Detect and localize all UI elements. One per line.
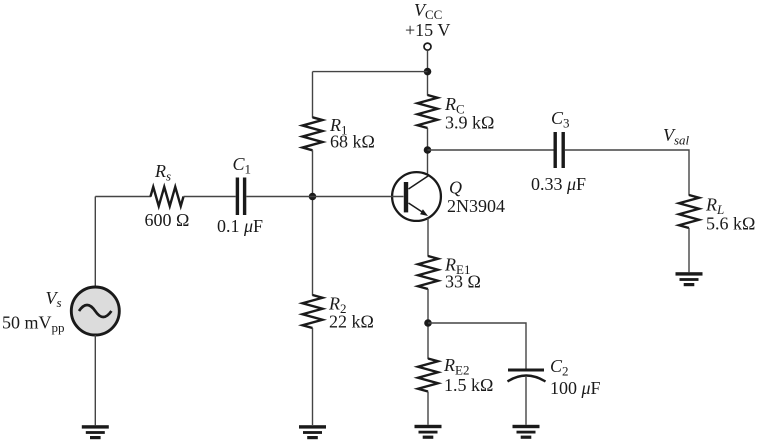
svg-text:0.33 μF: 0.33 μF xyxy=(531,174,586,194)
wire RC bottom to collector node xyxy=(427,128,429,176)
svg-text:3.9 kΩ: 3.9 kΩ xyxy=(445,112,494,132)
svg-text:1.5 kΩ: 1.5 kΩ xyxy=(444,375,493,395)
resistor R1 xyxy=(303,117,323,150)
wire emitter down to RE1 xyxy=(427,218,429,257)
ground below R2 xyxy=(299,425,326,439)
svg-text:5.6 kΩ: 5.6 kΩ xyxy=(706,214,755,234)
svg-text:+15 V: +15 V xyxy=(405,20,450,40)
wire top horizontal to R1 xyxy=(313,71,428,73)
node base junction xyxy=(309,193,317,201)
wire Vcc terminal to junction xyxy=(427,50,429,95)
node Vcc junction xyxy=(424,68,432,76)
svg-text:Q: Q xyxy=(449,178,462,198)
svg-text:2N3904: 2N3904 xyxy=(447,196,505,216)
wire R2 bottom to ground xyxy=(312,328,314,425)
resistor RE1 xyxy=(418,256,438,289)
node emitter junction xyxy=(424,319,432,327)
wire RE2 bottom to ground xyxy=(427,392,429,425)
resistor RL xyxy=(679,195,699,228)
wire RE1 bottom to emitter node xyxy=(427,289,429,359)
voltage source Vs xyxy=(71,287,119,335)
wire C2 bottom to ground xyxy=(525,377,527,425)
ground below Vs xyxy=(82,425,109,439)
ground below RL xyxy=(676,272,703,286)
ground below C2 xyxy=(513,425,540,439)
resistor R2 xyxy=(303,295,323,328)
wire Vs to Rs xyxy=(95,196,151,198)
ground below RE2 xyxy=(415,425,442,439)
svg-text:600 Ω: 600 Ω xyxy=(145,210,190,230)
wire collector node to C3 xyxy=(428,149,554,151)
wire C1 to base xyxy=(246,196,403,198)
svg-text:68 kΩ: 68 kΩ xyxy=(330,132,375,152)
resistor RC xyxy=(418,95,438,128)
wire R1 bottom to base node xyxy=(312,150,314,295)
wire Vs bottom to ground xyxy=(94,335,96,425)
wire RL bottom to ground xyxy=(688,228,690,272)
capacitor C3 xyxy=(555,132,563,168)
wire C3 to RL corner xyxy=(565,150,689,196)
capacitor C1 xyxy=(237,178,244,216)
wire R1 top xyxy=(312,72,314,118)
wire Rs to C1 xyxy=(184,196,236,198)
resistor Rs xyxy=(151,187,184,206)
node collector junction xyxy=(424,146,432,154)
capacitor C2 xyxy=(508,370,546,382)
wire Vs top xyxy=(94,197,96,288)
svg-text:100 μF: 100 μF xyxy=(550,378,601,398)
svg-text:0.1 μF: 0.1 μF xyxy=(217,216,263,236)
transistor Q1 2N3904 xyxy=(392,172,441,221)
svg-text:33 Ω: 33 Ω xyxy=(445,272,481,292)
svg-text:22 kΩ: 22 kΩ xyxy=(329,312,374,332)
resistor RE2 xyxy=(418,359,438,392)
wire emitter node to C2 xyxy=(428,323,526,369)
Vcc terminal xyxy=(424,43,431,50)
